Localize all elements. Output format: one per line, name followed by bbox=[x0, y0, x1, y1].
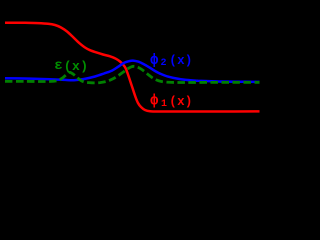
svg-text:ϕ: ϕ bbox=[150, 52, 159, 69]
curve phi1 red bbox=[5, 23, 260, 112]
svg-text:(x): (x) bbox=[169, 95, 192, 109]
curve phi2 blue bbox=[5, 61, 260, 82]
label phi2(x) blue bbox=[150, 52, 193, 69]
label phi1(x) red bbox=[150, 93, 193, 110]
svg-text:1: 1 bbox=[161, 99, 167, 110]
svg-text:2: 2 bbox=[161, 58, 167, 69]
svg-text:(x): (x) bbox=[169, 54, 192, 68]
svg-text:(x): (x) bbox=[64, 59, 89, 74]
svg-text:ε: ε bbox=[54, 58, 62, 74]
curve epsilon green dashed bbox=[5, 66, 260, 83]
svg-text:ϕ: ϕ bbox=[150, 93, 159, 110]
label epsilon(x) green bbox=[54, 58, 88, 74]
